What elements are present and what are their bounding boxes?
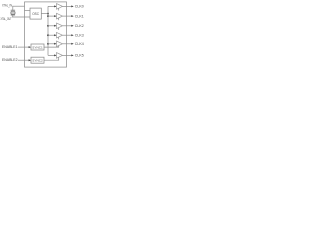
arrowhead CLK1 [71, 15, 73, 17]
enable stub buffer 2 [58, 28, 60, 30]
arrowhead into buffer 5 [54, 54, 56, 56]
buffer U2 triangle [57, 4, 63, 10]
enable stub buffer 3 [58, 37, 60, 39]
svg-text:CLK5: CLK5 [75, 54, 84, 58]
wire crystal bottom riser [12, 15, 14, 17]
arrowhead into SYNC2 [29, 59, 31, 61]
wire output CLK5 [63, 54, 72, 56]
arrowhead into buffer 2 [54, 25, 56, 27]
arrowhead into buffer 0 [54, 5, 56, 7]
buffer row CLK4 [48, 41, 84, 47]
buffer row CLK0 [48, 4, 84, 11]
arrowhead CLK5 [71, 54, 73, 56]
svg-text:SYNC1: SYNC1 [32, 45, 43, 49]
arrowhead CLK0 [71, 5, 73, 7]
svg-text:CLK3: CLK3 [75, 34, 84, 38]
wire output CLK3 [63, 34, 72, 36]
buffer U5 triangle [57, 32, 63, 38]
svg-text:CLK0: CLK0 [75, 5, 84, 9]
wire output CLK0 [63, 5, 72, 7]
wire branch to buffer 1 [48, 15, 55, 17]
arrowhead into buffer 4 [54, 43, 56, 45]
IC boundary box U1 [25, 2, 67, 67]
wire XTAL_IN internal to OSC [25, 10, 31, 12]
wire ENABLE1 pin [18, 46, 29, 48]
enable stub buffer 1 [58, 18, 60, 20]
arrowhead CLK2 [71, 25, 73, 27]
wire XTAL_OUT pin into OSC [12, 16, 30, 18]
junction OSC to clock bus [47, 13, 49, 15]
buffer U4 triangle [57, 23, 63, 29]
svg-text:SYNC2: SYNC2 [32, 59, 43, 63]
svg-text:CLK4: CLK4 [75, 42, 84, 46]
wire crystal top riser [12, 6, 14, 10]
buffer row CLK1 [48, 13, 84, 20]
wire branch to buffer 0 [48, 5, 55, 7]
crystal Y1 body [11, 11, 15, 14]
svg-text:XTAL_OUT: XTAL_OUT [1, 17, 12, 21]
wire output CLK2 [63, 25, 72, 27]
svg-text:XTAL_IN: XTAL_IN [2, 4, 12, 8]
buffer row CLK3 [48, 32, 84, 39]
buffer row CLK5 [48, 53, 84, 59]
arrowhead CLK3 [71, 34, 73, 36]
wire XTAL_IN pin [12, 5, 24, 7]
buffer row CLK2 [48, 23, 84, 30]
arrowhead CLK4 [71, 43, 73, 45]
wire OSC output [41, 13, 48, 15]
junction bus CLK1 branch [47, 15, 49, 17]
junction bus CLK4 branch [47, 43, 49, 45]
junction bus CLK3 branch [47, 34, 49, 36]
wire branch to buffer 4 [48, 43, 55, 45]
svg-text:OSC: OSC [32, 12, 39, 16]
arrowhead into buffer 3 [54, 34, 56, 36]
wire branch to buffer 5 [48, 54, 55, 56]
svg-text:ENABLE1: ENABLE1 [2, 45, 18, 49]
wire SYNC2 output to buffer 5 enable [44, 57, 59, 60]
buffer U7 triangle [57, 53, 63, 59]
arrowhead into SYNC1 [29, 46, 31, 48]
svg-text:CLK2: CLK2 [75, 24, 84, 28]
wire clock bus vertical [47, 6, 49, 55]
wire SYNC1 output to buffer 4 enable [44, 46, 59, 48]
buffer U3 triangle [57, 13, 63, 19]
wire output CLK1 [63, 15, 72, 17]
wire output CLK4 [63, 43, 72, 45]
svg-text:CLK1: CLK1 [75, 14, 84, 18]
junction bus CLK2 branch [47, 25, 49, 27]
wire branch to buffer 2 [48, 25, 55, 27]
wire ENABLE2 pin [18, 59, 29, 61]
sync block SYNC2 [31, 57, 44, 63]
arrowhead into buffer 1 [54, 15, 56, 17]
crystal Y1 bottom plate [11, 14, 15, 16]
enable stub buffer 0 [58, 8, 60, 10]
sync block SYNC1 [31, 44, 44, 50]
crystal Y1 top plate [11, 9, 15, 11]
oscillator block OSC [30, 8, 41, 19]
wire branch to buffer 3 [48, 34, 55, 36]
buffer U6 triangle [57, 41, 63, 47]
svg-text:ENABLE2: ENABLE2 [2, 58, 18, 62]
